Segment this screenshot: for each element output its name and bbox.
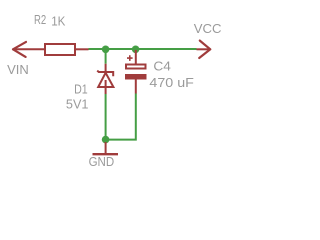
svg-text:D1: D1: [74, 82, 88, 97]
resistor R2: [45, 44, 75, 55]
label GND: [89, 154, 115, 169]
wire diode D1 to ground junction: [105, 94, 107, 140]
zener diode D1 cathode bar: [97, 71, 113, 77]
svg-text:1K: 1K: [51, 13, 65, 28]
diode D1 top pin: [105, 64, 107, 72]
svg-text:5V1: 5V1: [66, 96, 89, 111]
ground pin: [105, 142, 107, 153]
label R2: [34, 12, 46, 27]
capacitor C4 bottom pin: [135, 80, 137, 94]
node VIN arrow: [13, 42, 26, 57]
node VCC arrow: [199, 41, 210, 58]
label VCC: [194, 21, 222, 36]
label 1K value: [51, 13, 65, 28]
label VIN: [7, 62, 29, 77]
capacitor C4 positive plate: [126, 65, 146, 69]
zener diode D1 triangle: [98, 73, 113, 87]
wire VIN arrow shaft to resistor pin: [13, 48, 45, 50]
junction dot at ground: [102, 136, 110, 144]
label 5V1 value: [66, 96, 89, 111]
junction dot at capacitor branch: [132, 46, 140, 54]
svg-text:R2: R2: [34, 12, 46, 27]
label C4: [153, 59, 171, 74]
wire capacitor C4 to ground junction: [106, 94, 136, 140]
label 470 uF value: [149, 75, 194, 90]
junction dot at diode branch: [102, 46, 110, 54]
svg-text:470 uF: 470 uF: [149, 75, 194, 90]
diode D1 bottom pin: [105, 80, 107, 94]
capacitor C4 plus sign: [127, 55, 133, 61]
capacitor C4 top pin: [135, 50, 137, 64]
wire VCC arrow shaft: [197, 48, 211, 50]
svg-text:C4: C4: [153, 59, 171, 74]
resistor R2 right pin: [75, 48, 89, 50]
svg-text:VCC: VCC: [194, 21, 222, 36]
ground symbol bar: [93, 153, 119, 155]
wire VCC net horizontal: [89, 48, 197, 50]
label D1: [74, 82, 88, 97]
capacitor C4 negative plate: [125, 74, 147, 80]
svg-text:GND: GND: [89, 154, 115, 169]
svg-text:VIN: VIN: [7, 62, 29, 77]
wire junction to diode D1: [105, 49, 107, 63]
